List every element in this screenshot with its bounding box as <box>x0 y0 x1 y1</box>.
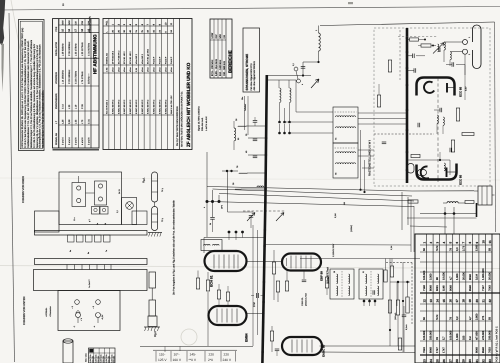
table HF ABSTIMMUNG border <box>53 19 100 148</box>
svg-text:L 73: L 73 <box>81 119 84 124</box>
svg-text:Fig.1: Fig.1 <box>143 177 146 183</box>
svg-text:8948: 8948 <box>430 347 433 353</box>
svg-text:ECH 81 g1 NR2: ECH 81 g1 NR2 <box>147 48 150 64</box>
tuner lower wires <box>407 159 450 161</box>
svg-text:Fig.2: Fig.2 <box>154 331 157 337</box>
svg-text:+VORNE+: +VORNE+ <box>45 307 48 317</box>
tuner capacitor C3 <box>413 68 415 73</box>
tuner triode V1a cathode arc <box>424 82 434 93</box>
IF can Fi2b <box>359 269 383 299</box>
svg-text:AM 47 kHz TASTE MW DRÜCKEN: AM 47 kHz TASTE MW DRÜCKEN KO AN PUNKT G… <box>181 91 184 147</box>
svg-text:10: 10 <box>481 240 485 244</box>
svg-text:L auf M an A M: L auf M an A M <box>205 116 208 131</box>
svg-text:- 4: - 4 <box>93 326 96 328</box>
svg-text:100.000: 100.000 <box>423 270 426 280</box>
svg-text:1747: 1747 <box>443 347 446 353</box>
IF can Fi2a <box>330 269 354 299</box>
chassis top view trimmer boxes <box>92 207 100 215</box>
output junctions <box>444 212 447 215</box>
svg-text:E84 L81: E84 L81 <box>92 356 95 363</box>
svg-text:87,5 - 100 MHz: 87,5 - 100 MHz <box>211 59 214 76</box>
svg-text:C 23 1350kHz: C 23 1350kHz <box>68 69 71 84</box>
svg-text:8048: 8048 <box>469 274 472 280</box>
sheet right border line <box>495 22 496 232</box>
tuner triode V1a anode bar <box>446 83 448 93</box>
output wire upper <box>412 190 474 192</box>
capacitor C45 <box>253 155 258 157</box>
coil L16 with capacitor <box>238 126 246 127</box>
svg-text:C 23 170kHz: C 23 170kHz <box>74 70 77 84</box>
svg-text:2.73: 2.73 <box>462 245 465 251</box>
inner frame top line <box>320 22 495 26</box>
svg-text:23: 23 <box>422 359 426 363</box>
svg-text:VORKREIS: VORKREIS <box>55 72 58 84</box>
svg-text:7148: 7148 <box>423 285 426 291</box>
AF stage long wires <box>389 259 391 347</box>
svg-text:ECC 85: ECC 85 <box>459 174 463 185</box>
antenna arrow <box>311 79 319 88</box>
svg-text:SIGNAL AN: SIGNAL AN <box>55 133 58 145</box>
svg-text:29: 29 <box>462 359 466 363</box>
tuner trimmer with arrow <box>438 44 439 52</box>
svg-text:24 23: 24 23 <box>118 189 121 194</box>
svg-text:CHASSIS VON UNTEN: CHASSIS VON UNTEN <box>23 297 26 325</box>
tube EBF89 envelope <box>282 254 321 271</box>
svg-text:3 und 6: 3 und 6 <box>87 137 90 145</box>
svg-text:3,2: 3,2 <box>292 63 295 66</box>
wires FM cans to tuner bus <box>358 112 407 114</box>
tuner resistor R2 <box>421 44 431 47</box>
svg-text:13: 13 <box>429 299 433 303</box>
scan edge artifact top-left <box>0 0 5 46</box>
svg-text:L 25 920kHz: L 25 920kHz <box>61 43 64 56</box>
svg-text:E ABC 80 NR 2: E ABC 80 NR 2 <box>135 99 138 114</box>
svg-text:1747: 1747 <box>436 347 439 353</box>
svg-text:3,2: 3,2 <box>456 316 459 320</box>
wire bus to FM coils <box>267 79 296 81</box>
svg-text:MW: MW <box>219 34 222 39</box>
svg-text:1M: 1M <box>343 202 346 205</box>
tuner triode V1b cathode coil <box>418 170 427 176</box>
coil L76 with junctions <box>239 173 247 174</box>
svg-text:2.800: 2.800 <box>475 313 478 320</box>
svg-text:Te7k: Te7k <box>436 314 439 320</box>
svg-text:32: 32 <box>481 359 485 363</box>
svg-text:160 V: 160 V <box>173 358 182 362</box>
chassis bottom view mounting bar <box>35 259 148 265</box>
band switch contacts <box>243 210 285 212</box>
svg-text:Punkt P: Punkt P <box>158 56 161 64</box>
tube heater table <box>89 348 116 363</box>
junction dots above coil box <box>228 231 231 234</box>
svg-text:3 und 6: 3 und 6 <box>74 137 77 145</box>
tuner mid dashed partition <box>374 133 434 135</box>
svg-text:24: 24 <box>429 359 433 363</box>
svg-text:L 23: L 23 <box>74 119 77 124</box>
svg-text:CZ60 67L: CZ60 67L <box>301 296 304 306</box>
output stage resistors <box>398 338 401 350</box>
tuner input resistor R1 <box>410 38 419 41</box>
svg-text:0,1M: 0,1M <box>475 274 478 280</box>
svg-text:3 und 4: 3 und 4 <box>68 137 71 145</box>
UKW tuner dashed enclosure <box>374 28 490 186</box>
mains voltage selector <box>153 349 237 351</box>
svg-text:E ABC 80 NR 2: E ABC 80 NR 2 <box>158 99 161 114</box>
tuner coil block mid <box>437 115 438 123</box>
svg-text:1148: 1148 <box>443 285 446 291</box>
speaker terminal block <box>478 186 492 205</box>
EBF89 pin drops <box>286 271 288 282</box>
ground hatch under Fig1 <box>148 232 162 234</box>
svg-text:26: 26 <box>442 359 446 363</box>
capacitor to bus top <box>302 62 304 76</box>
paper fold crease horizontal <box>0 266 500 269</box>
tube EM84 envelope <box>209 306 247 325</box>
svg-text:HF ABSTIMMUNG: HF ABSTIMMUNG <box>93 34 98 74</box>
tube EABC80 envelope <box>282 337 322 355</box>
svg-text:*m Geh***: *m Geh*** <box>88 279 91 288</box>
svg-text:3.300: 3.300 <box>430 273 433 280</box>
wire drops to output area <box>401 192 403 230</box>
resistors above EM84 <box>217 290 220 299</box>
svg-text:20: 20 <box>475 299 479 303</box>
wire pair below SPANNUNGEN box <box>244 96 246 130</box>
dashed coupling box <box>386 262 412 264</box>
svg-text:MP5: MP5 <box>221 205 224 209</box>
svg-text:Abst U an C56 -10V: Abst U an C56 -10V <box>170 95 173 114</box>
wires FM cans down to AF lines <box>360 130 362 190</box>
svg-text:27: 27 <box>449 359 453 363</box>
svg-text:10*-: 10*- <box>174 352 180 356</box>
svg-text:7643: 7643 <box>423 347 426 353</box>
svg-text:Punkt P: Punkt P <box>153 56 156 64</box>
svg-text:14: 14 <box>435 299 439 303</box>
svg-text:4 und 6: 4 und 6 <box>81 137 84 145</box>
audio wires right <box>397 315 399 346</box>
svg-text:28: 28 <box>455 359 459 363</box>
svg-text:8948: 8948 <box>469 285 472 291</box>
svg-text:C 31: C 31 <box>87 118 90 124</box>
svg-text:100.000: 100.000 <box>423 330 426 340</box>
svg-text:19.000: 19.000 <box>443 272 446 280</box>
sheet left border line <box>9 13 15 362</box>
svg-text:16: 16 <box>449 299 453 303</box>
component value table border <box>415 234 500 363</box>
svg-text:SIGNAL AN: SIGNAL AN <box>106 53 109 64</box>
svg-text:ECH 81 NR 2: ECH 81 NR 2 <box>123 51 126 64</box>
output transformer coil <box>447 202 458 203</box>
tuner triode V1b cathode arc <box>421 166 429 178</box>
svg-text:220: 220 <box>224 352 230 356</box>
chassis top view tube shield 1 <box>72 183 86 207</box>
chassis top view IF can footprint <box>122 198 137 225</box>
svg-text:g 2: g 2 <box>88 219 91 222</box>
table HF ABSTIMMUNG grid <box>58 19 60 148</box>
output network resistor <box>465 201 474 204</box>
antenna coupling coil <box>444 42 445 50</box>
faint dial circle <box>181 329 197 345</box>
svg-text:4: 4 <box>301 84 304 85</box>
svg-text:21: 21 <box>481 299 485 303</box>
svg-text:POL: POL <box>106 20 109 25</box>
svg-text:E ABC 80 NR 2: E ABC 80 NR 2 <box>123 99 126 114</box>
svg-text:ZWISCHENKR.: ZWISCHENKR. <box>55 93 58 109</box>
svg-text:C 31 507kHz: C 31 507kHz <box>87 42 90 56</box>
svg-text:ECH 81: ECH 81 <box>210 275 214 287</box>
svg-text:5,95 - 18,4 MHz: 5,95 - 18,4 MHz <box>215 58 218 76</box>
svg-text:11: 11 <box>488 240 492 244</box>
svg-text:271: 271 <box>482 315 485 320</box>
svg-text:ohne NR 2: ohne NR 2 <box>135 53 138 64</box>
parts left of EABC80 <box>270 331 273 341</box>
svg-text:9,5V: 9,5V <box>465 86 468 91</box>
svg-text:ohne NR 2: ohne NR 2 <box>141 53 144 64</box>
svg-text:POS: POS <box>55 26 58 31</box>
svg-text:100.000: 100.000 <box>449 330 452 340</box>
junction dots row A <box>279 103 281 123</box>
wires coils to can inputs <box>290 132 334 134</box>
wire EM84 to bottom table <box>140 346 253 348</box>
svg-text:2,08: 2,08 <box>68 119 71 124</box>
antenna switch contacts <box>294 67 298 71</box>
bus top corner wire <box>267 75 311 77</box>
svg-text:28: 28 <box>333 271 336 273</box>
svg-text:Sich. 0,5A: Sich. 0,5A <box>85 353 88 362</box>
svg-text:Signal 10,7MHz ±300kHz: Signal 10,7MHz ±300kHz <box>198 106 201 131</box>
svg-text:7147: 7147 <box>482 285 485 291</box>
svg-text:33: 33 <box>488 359 492 363</box>
capacitor C15 <box>253 138 258 140</box>
svg-text:323: 323 <box>462 335 465 340</box>
svg-text:ECH 81 NR 2: ECH 81 NR 2 <box>129 51 132 64</box>
svg-text:FM ohne Signal UKW 87,5: FM ohne Signal UKW 87,5 <box>250 63 253 91</box>
trimmer capacitors <box>451 62 453 67</box>
antenna terminals <box>463 40 468 45</box>
tuner triode V1b anode bar <box>446 168 448 178</box>
svg-text:20.000: 20.000 <box>489 272 492 280</box>
svg-text:30: 30 <box>468 359 472 363</box>
detector resistors <box>384 270 387 282</box>
svg-text:EM84: EM84 <box>245 333 249 342</box>
paper crease top-left diagonal <box>11 0 20 50</box>
IF can Fi1a box <box>333 107 358 143</box>
svg-text:L 19: L 19 <box>74 104 77 109</box>
svg-text:27nF: 27nF <box>253 301 256 307</box>
svg-text:+Oberseite+: +Oberseite+ <box>49 305 52 317</box>
coil L18 <box>235 189 241 190</box>
svg-text:5.995: 5.995 <box>475 244 478 251</box>
folded dipole antenna <box>473 25 482 69</box>
tuner small coil left of bus <box>408 164 415 174</box>
svg-text:Punkt P: Punkt P <box>170 56 173 64</box>
capacitor 27nF <box>256 293 258 298</box>
component value table section dividers <box>420 292 500 294</box>
svg-text:8,2mA: 8,2mA <box>405 324 408 330</box>
AM antenna coil <box>319 33 321 51</box>
svg-text:145-: 145- <box>190 352 197 356</box>
tuner triode V1a envelope <box>417 78 455 96</box>
svg-text:FM 10,7 MHz TASTE UKW DR: FM 10,7 MHz TASTE UKW DRÜCKEN <box>176 106 179 146</box>
svg-text:150 - 360 kHz: 150 - 360 kHz <box>223 60 226 76</box>
svg-text:(120kV): (120kV) <box>350 225 353 232</box>
svg-text:E ABC 80 NR 2: E ABC 80 NR 2 <box>111 99 114 114</box>
svg-text:C 14: C 14 <box>61 103 64 109</box>
svg-text:18: 18 <box>462 299 466 303</box>
svg-text:240 V: 240 V <box>223 358 232 362</box>
svg-text:8b: 8b <box>104 223 107 225</box>
svg-text:L 76 173kHz: L 76 173kHz <box>81 71 84 84</box>
note box border (alignment instructions) <box>19 20 45 151</box>
tuner resistors mid <box>377 95 380 107</box>
tuner chassis bus (thick) <box>406 28 409 183</box>
table ZF ABGLEICH border <box>103 19 192 150</box>
keyboard assembly box <box>34 270 148 291</box>
volume pot resistors <box>396 300 399 315</box>
svg-text:470.000: 470.000 <box>482 330 485 340</box>
chassis top view mounting bar <box>35 231 148 236</box>
svg-text:OSZILLATOR: OSZILLATOR <box>55 42 58 56</box>
AM switch junction dots <box>206 200 209 203</box>
oscillator coil lower <box>444 163 445 171</box>
tuning gang dash-dot line <box>437 78 439 182</box>
svg-text:15: 15 <box>442 299 446 303</box>
tube ECH81 envelope <box>205 251 247 271</box>
svg-text:~6,3V: ~6,3V <box>101 314 104 320</box>
svg-text:307kHz —: 307kHz — <box>87 73 90 84</box>
svg-text:330.000: 330.000 <box>430 330 433 340</box>
svg-text:CHASSIS VON OBEN: CHASSIS VON OBEN <box>22 176 25 203</box>
svg-text:1M: 1M <box>469 336 472 340</box>
svg-text:**0 V: **0 V <box>189 358 197 362</box>
svg-text:(150mA): (150mA) <box>394 312 397 320</box>
svg-text:5,7: 5,7 <box>443 336 446 340</box>
svg-text:E ABC 80 NR 2: E ABC 80 NR 2 <box>141 99 144 114</box>
svg-text:17: 17 <box>455 299 459 303</box>
svg-text:L 23 1173kHz: L 23 1173kHz <box>81 41 84 56</box>
svg-text:POS C / pF R / Ω L / mH: POS C / pF R / Ω L / mH POS C <box>496 326 499 362</box>
svg-text:1.000: 1.000 <box>456 333 459 340</box>
svg-text:C 26 1080kHz: C 26 1080kHz <box>68 41 71 56</box>
svg-text:EC Fi 88 NR 2: EC Fi 88 NR 2 <box>117 50 120 64</box>
svg-text:12: 12 <box>422 299 426 303</box>
svg-text:4/7.000: 4/7.000 <box>475 331 478 340</box>
svg-text:C 26: C 26 <box>81 103 84 109</box>
svg-text:1.220V/1.780V: 1.220V/1.780V <box>332 243 335 257</box>
svg-text:1.000.000: 1.000.000 <box>482 268 485 280</box>
svg-text:3b: 3b <box>209 223 212 225</box>
junction dots on chassis bus <box>265 125 268 128</box>
svg-text:6091: 6091 <box>436 285 439 291</box>
svg-text:510 - 1620 kHz: 510 - 1620 kHz <box>219 59 222 76</box>
svg-text:3,3: 3,3 <box>456 247 459 251</box>
svg-text:ECC 85: ECC 85 <box>459 86 463 97</box>
svg-text:nachempf richtun C 8, Pos 24: nachempf richtun C 8, Pos 24 auf Maximum… <box>42 90 45 148</box>
EM84 coupling wires <box>247 313 264 315</box>
svg-text:8948: 8948 <box>482 347 485 353</box>
svg-text:20.000: 20.000 <box>462 272 465 280</box>
svg-text:110-: 110- <box>159 352 165 356</box>
chassis bottom view socket circles <box>75 300 80 305</box>
svg-text:4,7: 4,7 <box>449 276 452 280</box>
electrolytic capacitor can <box>63 341 73 363</box>
tuner triode V1b envelope <box>417 164 457 180</box>
AM oscillator coil box <box>201 240 222 251</box>
grid resistor under ECH81 <box>196 278 199 289</box>
svg-text:7633: 7633 <box>489 347 492 353</box>
svg-text:4: 4 <box>203 207 206 208</box>
tuner bus junction dots <box>406 37 409 40</box>
table ZF ABGLEICH grid <box>108 19 110 150</box>
svg-text:E ABC 80 NR 2: E ABC 80 NR 2 <box>129 99 132 114</box>
svg-text:KO AN Punkt 1: KO AN Punkt 1 <box>106 99 109 114</box>
svg-text:SPANNUNGEN, STROME: SPANNUNGEN, STROME <box>245 54 249 91</box>
switch capacitor <box>249 215 254 217</box>
chassis top view socket tabs <box>68 235 75 242</box>
svg-text:L 23: L 23 <box>68 104 71 109</box>
Fig1 coil chain <box>152 172 158 202</box>
paper fold crease horizontal upper <box>0 178 500 180</box>
sheet top border line <box>0 7 500 11</box>
svg-text:30% AM mod.: 30% AM mod. <box>201 117 204 131</box>
svg-text:330.000: 330.000 <box>489 330 492 340</box>
svg-text:Te7k: Te7k <box>436 245 439 251</box>
svg-text:EBF 89: EBF 89 <box>320 271 324 281</box>
note box SPANNUNGEN STROEME <box>243 28 260 92</box>
svg-text:125 V: 125 V <box>158 358 167 362</box>
inner dashed partition upper <box>399 30 401 80</box>
svg-text:8048: 8048 <box>430 285 433 291</box>
svg-text:Die Pos-Angaben in Fig.1 und F: Die Pos-Angaben in Fig.1 und Fig.2 bezie… <box>173 200 176 295</box>
tuner capacitor C2 <box>412 54 414 59</box>
ground hatch under Fig2 <box>144 326 160 328</box>
svg-text:EABC 80: EABC 80 <box>322 344 326 357</box>
svg-text:4,7: 4,7 <box>469 316 472 320</box>
svg-text:Punkt P: Punkt P <box>164 56 167 64</box>
AM input coil 55 <box>234 128 236 141</box>
wire line 1.220V <box>300 258 420 260</box>
tuner resistor at V1b <box>411 154 420 157</box>
resistor chain bus to EBF <box>273 250 275 262</box>
svg-text:RASTEINSTELLUNG U K W I: RASTEINSTELLUNG U K W I <box>369 140 372 176</box>
table BEREICHE border <box>210 19 232 78</box>
chassis ground bus (thick) <box>262 75 266 363</box>
svg-text:9048: 9048 <box>449 285 452 291</box>
svg-text:ZF ABGLEICH MIT WOBBLER UND KO: ZF ABGLEICH MIT WOBBLER UND KO <box>186 62 191 147</box>
svg-text:E84 L81: E84 L81 <box>97 356 100 363</box>
wires down to EM84 <box>252 225 254 346</box>
svg-text:0,1M: 0,1M <box>334 213 337 218</box>
svg-text:UKW: UKW <box>211 32 214 38</box>
tuner wire to IF <box>362 167 374 169</box>
chassis bottom view plate <box>58 291 120 331</box>
svg-text:1,25: 1,25 <box>61 119 64 124</box>
svg-text:3 und 4: 3 und 4 <box>61 137 64 145</box>
svg-text:E84 L81: E84 L81 <box>113 356 116 363</box>
IF coupling resistor <box>325 277 328 288</box>
feed wire to output table <box>265 244 411 247</box>
component value table header column <box>491 234 493 363</box>
svg-text:0,1M: 0,1M <box>390 245 393 250</box>
coil pair FM input <box>280 88 281 103</box>
svg-text:31: 31 <box>362 271 365 273</box>
svg-text:(20mA) 3,7mA: (20mA) 3,7mA <box>305 292 308 306</box>
short heavy wire <box>476 203 478 217</box>
svg-text:31: 31 <box>475 359 479 363</box>
chassis top view tube shield 2 <box>95 181 107 205</box>
svg-text:E84 L81: E84 L81 <box>102 356 105 363</box>
svg-text:25: 25 <box>435 359 439 363</box>
tuner capacitors mid <box>417 123 419 128</box>
